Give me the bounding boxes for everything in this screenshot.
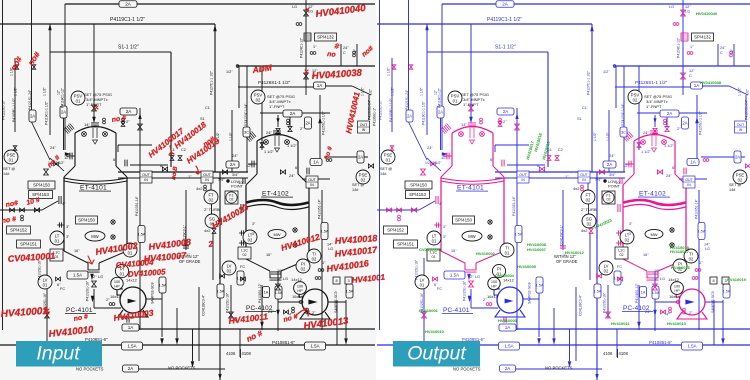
svg-text:HV410012: HV410012 bbox=[565, 250, 585, 255]
svg-text:HV410007: HV410007 bbox=[527, 247, 547, 252]
svg-text:HV410002: HV410002 bbox=[476, 251, 496, 256]
svg-text:HV410010: HV410010 bbox=[425, 329, 445, 334]
svg-text:CV0410001: CV0410001 bbox=[419, 247, 441, 252]
svg-text:CV410004: CV410004 bbox=[495, 273, 515, 278]
svg-text:Input: Input bbox=[36, 343, 81, 365]
svg-text:HV410017: HV410017 bbox=[670, 249, 690, 254]
svg-text:no: no bbox=[327, 51, 337, 59]
svg-text:HV0410038: HV0410038 bbox=[700, 80, 722, 85]
svg-text:Output: Output bbox=[407, 343, 467, 365]
svg-text:HV410011: HV410011 bbox=[611, 321, 630, 326]
svg-text:HV410019: HV410019 bbox=[727, 277, 747, 282]
svg-text:HV410001: HV410001 bbox=[419, 308, 439, 313]
svg-text:HV0410040: HV0410040 bbox=[696, 11, 718, 16]
svg-text:HV410005: HV410005 bbox=[517, 264, 537, 269]
svg-text:HV410003: HV410003 bbox=[498, 318, 518, 323]
svg-text:HV410016: HV410016 bbox=[671, 265, 691, 270]
svg-text:HV410013: HV410013 bbox=[667, 321, 687, 326]
